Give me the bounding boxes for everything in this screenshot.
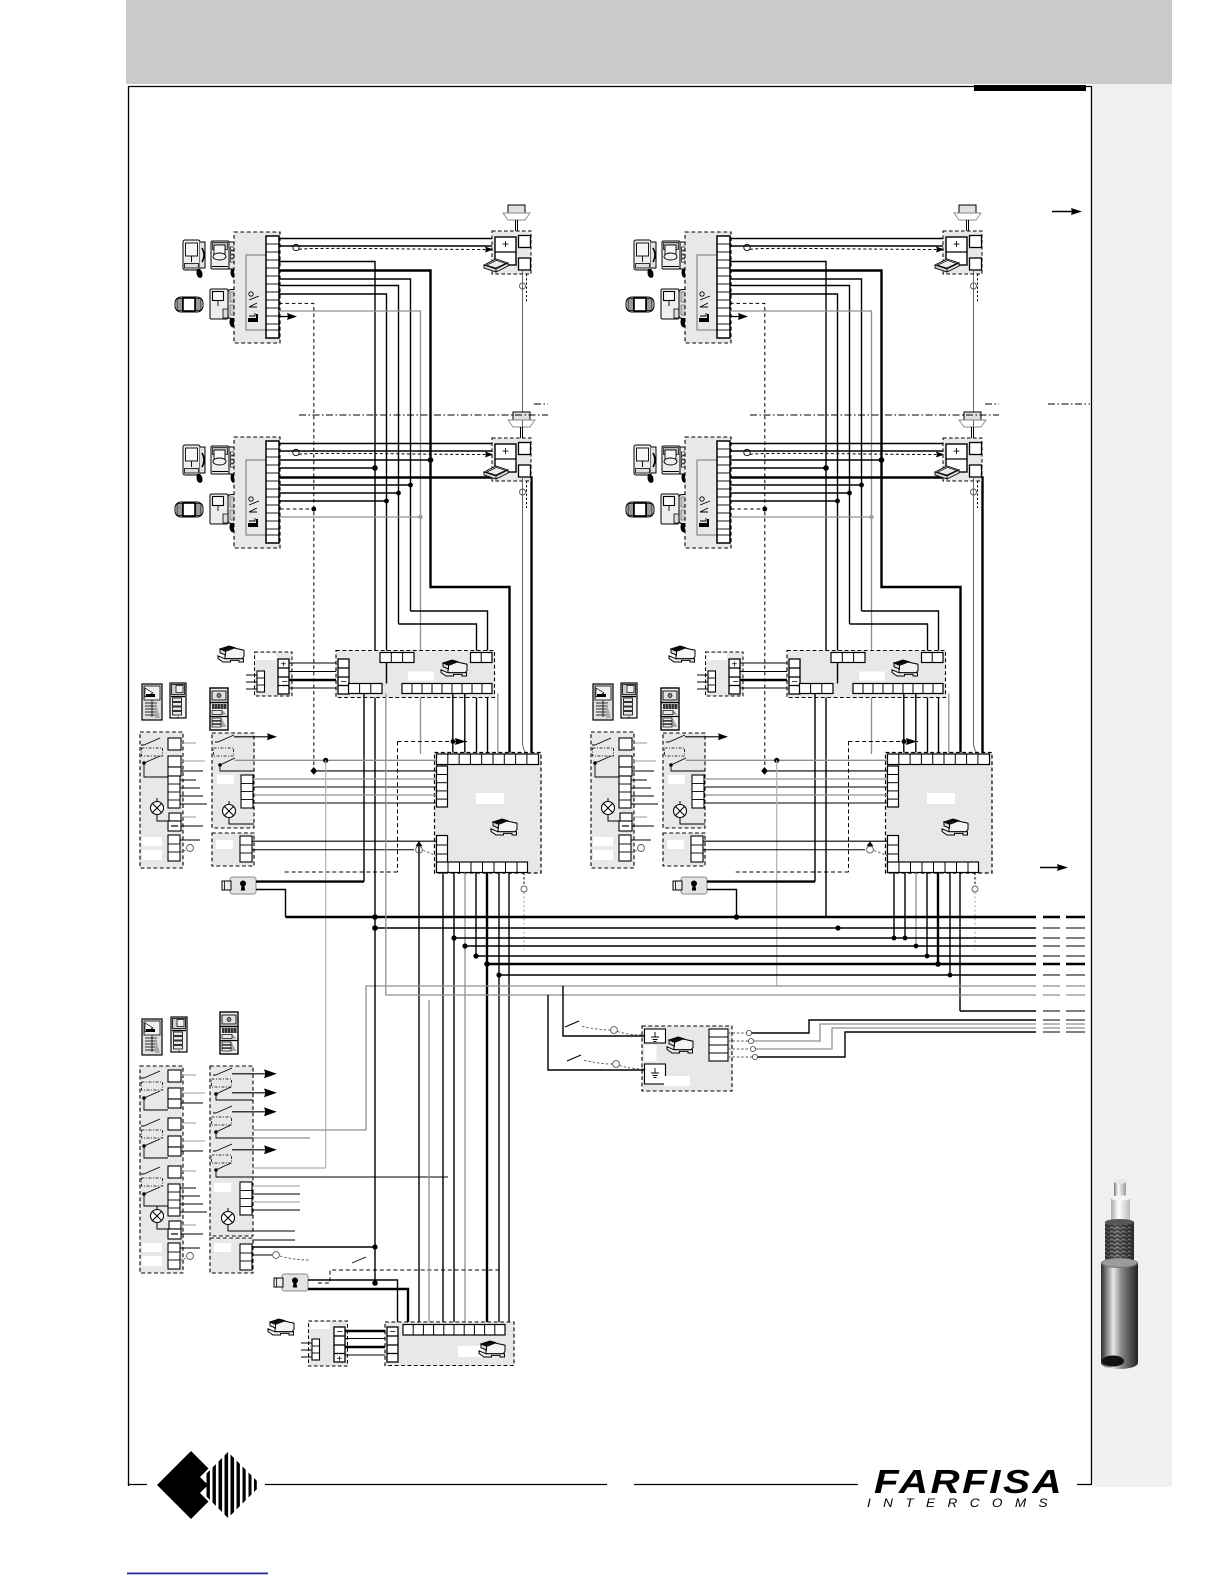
exchanger B 3D icon [942, 819, 968, 835]
apartment junction unit A2 [234, 437, 280, 548]
interface unit (dashed) [642, 1026, 732, 1091]
accessory panel A1 (dashed) [140, 732, 183, 868]
accessory panel B1 (dashed) [591, 732, 634, 868]
door station C-3 [220, 1012, 238, 1054]
PSU A1 riser drop [522, 270, 524, 427]
svg-text:−: − [733, 676, 739, 688]
main digital exchanger A [435, 753, 542, 874]
riser steps B [850, 587, 961, 754]
distributor B pass-through + output drops [815, 663, 916, 882]
bus wire 1 [286, 916, 1037, 918]
floor PSU A2 [492, 438, 531, 481]
bus junction dots right [734, 914, 953, 977]
panel C2 long wires [253, 1137, 310, 1139]
wall phone A1-b [211, 241, 237, 278]
intercom phone A2-d [210, 494, 237, 532]
power supply A (dashed) [246, 652, 292, 696]
ACI logo white notch [200, 1468, 226, 1502]
svg-text:+: + [732, 660, 738, 671]
exchanger A 3D icon [491, 819, 517, 835]
dashed riser link B2 [731, 508, 765, 510]
compact monitor B2-c [626, 502, 654, 517]
arrow out of unit B1 [731, 313, 748, 320]
mains pack A1 [484, 259, 508, 272]
switching module panel C2 (dashed) [210, 1066, 253, 1236]
svg-text:FARFISA: FARFISA [874, 1463, 1064, 1500]
videophone B2-a [634, 445, 656, 483]
dashed riser wire A1 [279, 303, 314, 771]
interface left wires [563, 986, 644, 1036]
grey drop into porter box [428, 1000, 430, 1322]
arrow from panel A2 [234, 733, 277, 740]
porter switchboard 3D icon [479, 1341, 505, 1357]
floor divider B (dash-dot) [750, 404, 1090, 415]
intercom phone A1-d [210, 289, 237, 327]
floor PSU A1 [492, 231, 531, 274]
door station A-2 [170, 683, 186, 718]
svg-text:INTERCOMS: INTERCOMS [867, 1498, 1060, 1510]
door station B-1 [593, 684, 613, 720]
lamp panel B2 [674, 805, 687, 818]
panel C2 terminal wires [252, 1194, 300, 1240]
svg-text:+: + [337, 1354, 343, 1365]
lamp panel C2 [222, 1212, 235, 1225]
junction box A wires [252, 840, 437, 842]
exchanger A bottom drops [443, 873, 509, 1323]
door station A-1 [142, 684, 162, 720]
grey wire B2 [731, 516, 872, 518]
PSU-C to porter box wires [345, 1331, 387, 1355]
porter key dashed link [318, 1270, 500, 1283]
accessory panel C1 (tall dashed) [140, 1066, 183, 1273]
bell A1 [503, 205, 530, 231]
door station C-2 [171, 1017, 187, 1052]
junction box C wires [252, 1246, 375, 1248]
lamp panel A2 [223, 805, 236, 818]
long riser to porter key line [374, 917, 376, 1283]
interface terminal dotted leads [728, 1033, 753, 1057]
bus wire 3 [454, 937, 1036, 939]
panel C1 stub wires [181, 1075, 205, 1225]
door station A-3 [210, 688, 228, 730]
wall phone B2-b [662, 446, 688, 483]
door station B-2 [621, 683, 637, 718]
grey wire B1 [730, 311, 872, 754]
right gray sidebar [1093, 84, 1172, 1487]
dashed building zone B [735, 742, 918, 873]
porter key wires [308, 1280, 398, 1322]
arrow to next riser (top right) [1052, 208, 1082, 215]
bell A2 [508, 412, 535, 438]
key switch A [222, 877, 256, 894]
floor divider A (dash-dot) [299, 404, 548, 415]
floor PSU B1 [943, 231, 982, 274]
transformer 3D icon C [268, 1319, 294, 1335]
riser continuation dashes at right edge [1043, 917, 1085, 975]
distributor B 3D icon [892, 660, 918, 676]
wall phone B1-b [662, 241, 688, 278]
PSU-A to distributor wires [289, 663, 338, 688]
dashed building zone A [284, 742, 467, 873]
PSU B2 column drop [974, 477, 979, 754]
dashed call wire A2 [299, 453, 487, 454]
compact monitor A1-c [175, 297, 203, 312]
panel B2 long wires to exchanger [686, 760, 888, 803]
svg-text:+: + [281, 660, 287, 671]
junction box C (dashed) [210, 1238, 253, 1273]
floor distributor box B [787, 651, 946, 698]
black tab top right [974, 85, 1086, 91]
svg-text:−: − [282, 676, 288, 688]
compact monitor A2-c [175, 502, 203, 517]
svg-text:−: − [341, 676, 347, 688]
key switch A wires [256, 880, 364, 882]
bus wire 5 [476, 955, 1036, 957]
top gray band [126, 0, 1172, 84]
ACI logo black diamond [157, 1451, 225, 1519]
grey stub from panel B2 down [776, 760, 778, 986]
exchanger B bottom drops [894, 873, 960, 1012]
PSU A2 column drop [523, 477, 528, 754]
zone arrow A [455, 738, 466, 745]
porter switchboard box [385, 1322, 514, 1366]
junction box B below panel (dashed) [663, 833, 705, 866]
dashed riser link A2 [280, 508, 314, 510]
videophone A2-a [183, 445, 205, 483]
bell B2 [959, 412, 986, 438]
grey wire A1 [279, 311, 421, 754]
exchanger B aux dotted drop [974, 873, 976, 885]
grey riser from panel A2 down [325, 760, 327, 1168]
dashed riser wire B1 [730, 303, 765, 771]
lamp panel A1 [151, 802, 164, 815]
bus wire 2 [375, 927, 1036, 929]
ACI logo striped diamond [207, 1450, 257, 1520]
wires A1 to floor distributor [279, 239, 494, 918]
PSU-B to distributor wires [740, 663, 789, 688]
page frame [129, 87, 1092, 1487]
arrow out of unit A1 [280, 313, 297, 320]
power supply B (dashed) [697, 652, 743, 696]
wires B1 [730, 239, 945, 918]
bus wire 9 (grey) [386, 694, 1036, 996]
arrows from panel C2 [232, 1070, 275, 1153]
apartment junction unit B1 [685, 232, 731, 343]
arrow to next column (right mid) [1040, 864, 1068, 871]
coax cable photo [1101, 1179, 1138, 1369]
switching module panel A2 (dashed) [212, 733, 254, 828]
key switch B [673, 877, 707, 894]
bus wire 7 [499, 974, 1036, 976]
transformer 3D icon B [669, 646, 695, 662]
bus wire 8 (grey) [253, 986, 1036, 1130]
svg-text:−: − [337, 1326, 343, 1338]
power supply C (dashed) [301, 1321, 348, 1366]
junction dots B2 [762, 457, 884, 511]
riser steps A (floor1 wires over to main unit) [399, 587, 510, 754]
intercom phone B2-d [661, 494, 688, 532]
grey wire A2 [280, 516, 421, 518]
distributor A pass-through + output drops [364, 663, 465, 882]
bus wire 6 [487, 963, 1036, 965]
compact monitor B1-c [626, 297, 654, 312]
mains pack B1 [935, 259, 959, 272]
key switch B wires [707, 880, 815, 882]
lamp panel B1 [602, 802, 615, 815]
frame bottom rule segments [128, 1484, 1092, 1486]
intercom phone B1-d [661, 289, 688, 327]
junction box B wires [703, 840, 888, 842]
lamp panel C1 [151, 1210, 164, 1223]
apartment junction unit A1 [234, 232, 280, 343]
bell B1 [954, 205, 981, 231]
panel A2 long wires to exchanger [235, 760, 437, 803]
distributor A 3D icon [441, 660, 467, 676]
wall phone A2-b [211, 446, 237, 483]
interface output wires to next building [751, 1020, 1036, 1057]
blue footer rule [127, 1573, 268, 1575]
wires B2 [731, 444, 983, 755]
panel B1 stub wires [632, 743, 656, 817]
interface 3D icon [667, 1037, 693, 1053]
bus wire 4 [465, 945, 1036, 947]
dashed call wire A1 [299, 248, 487, 249]
arrow from panel B2 [685, 733, 728, 740]
bus junction dots left [372, 914, 501, 977]
apartment junction unit B2 [685, 437, 731, 548]
zone arrow B [906, 738, 917, 745]
dashed call wire B1 [750, 248, 938, 249]
floor PSU B2 [943, 438, 982, 481]
junction dots A2 [311, 457, 433, 511]
wires A2 [280, 444, 532, 755]
videophone A1-a [183, 240, 205, 278]
building trunk dashes right edge [1043, 1011, 1085, 1032]
door station C-1 [142, 1019, 162, 1055]
PSU B1 riser drop [973, 270, 975, 427]
mains pack B2 [935, 466, 959, 479]
main digital exchanger B [886, 753, 993, 874]
trunk link from exchanger B [960, 1010, 1036, 1012]
svg-text:−: − [390, 1326, 396, 1338]
panel A1 stub wires [181, 743, 205, 817]
videophone B1-a [634, 240, 656, 278]
exchanger A aux dotted drop [523, 873, 525, 885]
mains pack A2 [484, 466, 508, 479]
junction box A below panel (dashed) [212, 833, 254, 866]
switching module panel B2 (dashed) [663, 733, 705, 828]
dashed call wire B2 [750, 453, 938, 454]
porter key switch [274, 1274, 308, 1291]
floor distributor box A [336, 651, 495, 698]
svg-text:−: − [792, 676, 798, 688]
door station B-3 [661, 688, 679, 730]
transformer 3D icon A [218, 646, 244, 662]
